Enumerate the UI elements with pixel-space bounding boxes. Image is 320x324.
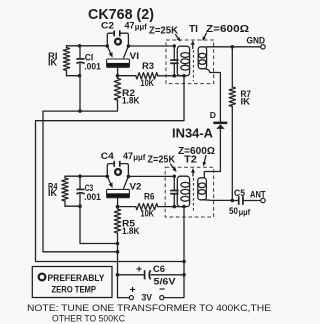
resistor R1 [48,46,70,76]
svg-text:IK: IK [241,97,251,108]
svg-text:C4: C4 [101,151,115,162]
svg-text:μμf: μμf [133,153,145,162]
wire [118,297,130,299]
svg-text:−: − [159,283,165,295]
node T2 capacitor bottom junction [173,205,177,209]
svg-text:IK: IK [48,188,58,198]
inductor T1 secondary [198,47,206,69]
svg-text:3V: 3V [142,292,153,303]
transistor V1 collector whisker [124,46,129,58]
note text [27,303,271,323]
svg-text:.001: .001 [84,62,101,72]
transformer T2 shield box [165,167,213,217]
transistor V1 emitter whisker [107,46,112,58]
svg-text:50: 50 [229,206,238,216]
wire [67,45,108,47]
node V2 base junction [116,205,120,209]
svg-text:V2: V2 [130,181,142,192]
node V1 base junction [116,74,120,78]
resistor R4 [48,176,68,206]
capacitor C3 [76,176,100,206]
resistor R3 [118,61,185,89]
transistor V2 base bar [107,181,142,197]
capacitor C5 [229,188,261,217]
svg-text:GND: GND [247,36,266,46]
inductor T1 primary [177,46,189,75]
resistor R5 [114,207,139,298]
svg-text:OTHER TO 500KC: OTHER TO 500KC [52,313,126,323]
svg-text:+: + [130,284,136,296]
capacitor C4 [101,151,146,167]
node V2 emitter [106,175,110,179]
node C5 junction [231,199,235,203]
wire [205,69,221,122]
transistor V1 base bar [107,51,139,67]
svg-text:Z=600Ω: Z=600Ω [178,146,215,157]
capacitor T1 tuning [170,46,178,76]
transistor V1 whisker dot [115,39,121,45]
resistor R6 [118,192,185,220]
svg-text:IK: IK [48,58,58,68]
node junction [116,250,120,254]
label Z=600 T1 [206,24,249,35]
node junction [116,273,120,277]
node top-left junction [78,44,82,48]
label T2 [184,155,197,166]
label CK768 (2) [88,7,154,23]
svg-text:D: D [210,110,216,120]
node T2 primary bottom junction [182,205,186,209]
svg-text:1.8K: 1.8K [122,226,140,237]
svg-text:C6: C6 [153,264,165,274]
wire [207,46,261,48]
svg-text:10K: 10K [141,78,155,89]
transistor V2 [107,164,128,177]
label Z=25K arrow T1 [176,35,181,42]
svg-text:Z=25K: Z=25K [149,26,179,37]
wire [67,75,81,77]
wire [117,76,119,79]
capacitor C6 [136,263,184,287]
wire [65,175,107,177]
wire [204,129,220,178]
transformer T1 shield box [166,40,214,84]
node T2 primary top junction [173,175,176,178]
capacitor C1 [76,46,100,76]
label Z=600 T2 [178,146,215,157]
wire V2 base lead [117,198,119,207]
label T1 [189,24,198,35]
transistor V1 [107,33,128,46]
transistor V2 whisker dot [115,169,121,175]
node R5 line junction [116,242,120,246]
svg-text:μμf: μμf [239,208,251,217]
transformer T1 core [191,40,195,81]
terminal ANT [250,190,266,203]
svg-text:CK768 (2): CK768 (2) [88,7,154,23]
wire [36,76,185,262]
node R1-C1 bottom junction [78,74,82,78]
wire [118,274,145,276]
svg-text:μμf: μμf [135,23,147,32]
svg-text:C5: C5 [234,188,245,198]
wire [43,100,118,111]
wire V1 base lead [117,67,119,75]
wire [65,205,80,207]
svg-text:IN34-A: IN34-A [172,126,213,140]
wire [128,175,174,177]
label Z=600 arrow T1 [202,33,206,41]
svg-text:NOTE: TUNE ONE TRANSFORMER TO: NOTE: TUNE ONE TRANSFORMER TO 400KC,THE [27,303,271,313]
node bottom-left junction [78,174,82,178]
label Z=25K T1 [149,26,179,37]
label Z=25K arrow T2 [171,164,177,172]
label Z=600 arrow T2 [203,156,207,167]
svg-text:Z=600Ω: Z=600Ω [206,24,249,35]
resistor R7 [229,47,251,201]
svg-text:TI: TI [189,24,198,35]
wire [205,199,233,202]
capacitor C2 [101,21,147,37]
node T1 primary bottom junction [182,74,186,78]
svg-text:ZERO TEMP: ZERO TEMP [52,285,97,296]
node junction [182,273,186,277]
svg-text:47: 47 [123,151,133,162]
svg-text:.001: .001 [84,192,101,202]
node T1 capacitor bottom junction [173,74,177,78]
wire [43,111,118,252]
transistor V2 emitter whisker [107,176,112,188]
svg-text:Z=25K: Z=25K [148,155,176,166]
svg-text:ANT: ANT [250,190,266,200]
diode D IN34-A [210,110,228,129]
svg-text:+: + [136,263,142,275]
svg-text:VI: VI [130,51,140,62]
resistor R2 [114,78,139,106]
node V1 collector [127,44,131,48]
transistor V2 collector whisker [124,176,129,188]
label Z=25K T2 [148,155,176,166]
inductor T2 secondary [198,178,207,200]
node R7 top junction [231,45,235,49]
wire [80,206,118,243]
battery 3V terminals [129,283,165,303]
wire [128,45,174,47]
node V1 emitter [106,44,110,48]
callout preferably-zero-temp box [32,267,112,298]
capacitor T2 tuning [170,176,178,206]
svg-text:R3: R3 [142,61,154,72]
node R4-C3 bottom junction [78,204,82,208]
wire [79,76,81,111]
node ground-line junction [78,109,82,113]
inductor T2 primary [177,176,189,206]
node T1 primary top junction [173,44,176,47]
terminal GND [247,36,266,49]
svg-text:1.8K: 1.8K [122,96,140,107]
wire T2 primary bottom rail [164,207,184,298]
label IN34-A [172,126,213,140]
svg-text:10K: 10K [141,208,155,219]
svg-text:PREFERABLY: PREFERABLY [48,273,106,284]
node V2 collector [127,175,131,179]
transformer T2 core [191,168,195,211]
svg-text:R6: R6 [144,192,155,203]
node junction [182,260,186,264]
